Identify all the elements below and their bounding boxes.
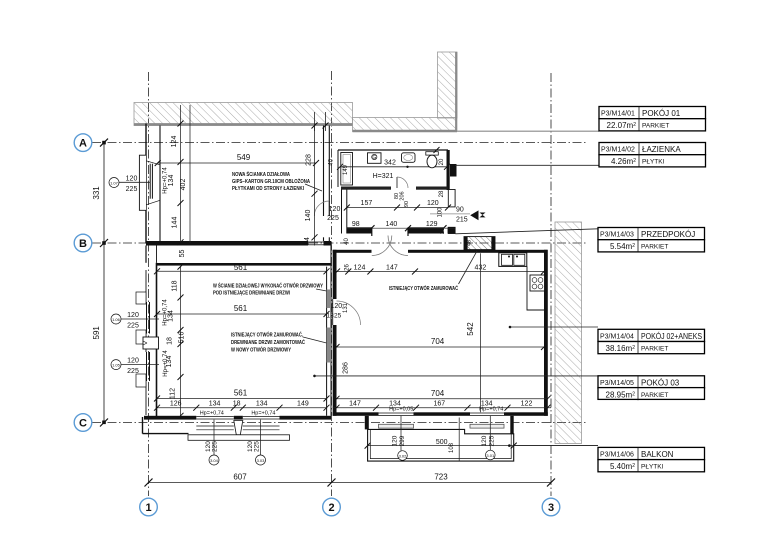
- note istniejacy otwor zamurowac (room03): [231, 331, 327, 354]
- svg-text:331: 331: [92, 186, 101, 200]
- leader to table 03: [455, 229, 598, 234]
- hallway bottom wall: [347, 227, 455, 233]
- balcony02 slab: [365, 416, 514, 461]
- svg-text:225: 225: [327, 215, 339, 222]
- svg-text:120: 120: [127, 358, 139, 365]
- label 1.06 120/225: [111, 312, 159, 330]
- svg-text:P3/M14/05: P3/M14/05: [600, 380, 634, 387]
- svg-text:2: 2: [328, 502, 334, 514]
- grid axis C horizontal dash-dot: [92, 422, 586, 424]
- svg-text:149: 149: [343, 164, 349, 175]
- svg-text:561: 561: [234, 389, 248, 398]
- svg-text:342: 342: [384, 160, 396, 167]
- svg-text:206: 206: [400, 191, 406, 200]
- svg-text:ISTNIEJĄCY OTWÓR ZAMUROWAĆ,: ISTNIEJĄCY OTWÓR ZAMUROWAĆ,: [231, 331, 303, 339]
- hallway dims 98/140/129: [344, 190, 446, 245]
- svg-text:38.16m2: 38.16m2: [606, 344, 636, 353]
- dim 55 between rooms: [179, 250, 186, 258]
- bathroom-hall partition wall (dark): [341, 187, 448, 190]
- grid axis 1 vertical dash-dot: [148, 72, 150, 496]
- leader to table 02: [455, 164, 599, 166]
- svg-text:Hp=+0,74: Hp=+0,74: [200, 410, 224, 416]
- dims 561 x3 room03: [154, 263, 330, 401]
- hallway left wall: [342, 190, 347, 234]
- svg-text:40: 40: [344, 238, 350, 245]
- svg-text:120: 120: [427, 200, 439, 207]
- svg-text:BALKON: BALKON: [641, 450, 674, 459]
- svg-text:561: 561: [234, 263, 248, 272]
- door 90/215 black leaf: [430, 207, 486, 224]
- svg-text:Hp=+0,74: Hp=+0,74: [163, 299, 169, 326]
- room03 left wall: [136, 263, 159, 420]
- svg-text:144: 144: [172, 217, 179, 229]
- hallway right wall with door opening: [448, 190, 455, 234]
- svg-text:124: 124: [171, 136, 178, 148]
- table P3/M14/04 POKOJ 02+ANEKS: [598, 329, 705, 353]
- leader to table 04: [509, 326, 598, 329]
- svg-text:704: 704: [431, 389, 445, 398]
- svg-text:3.03: 3.03: [257, 458, 266, 463]
- svg-text:B: B: [79, 238, 87, 250]
- svg-text:215: 215: [456, 217, 468, 224]
- svg-text:Hp=+0,74: Hp=+0,74: [479, 407, 503, 413]
- svg-text:C: C: [79, 418, 87, 430]
- balcony03 labels 120/225 + bubbles 3.04 3.03: [205, 420, 266, 465]
- svg-text:120: 120: [126, 175, 138, 182]
- room02 top wall: [333, 250, 548, 253]
- existing wall hatched band top (over room 01): [134, 103, 353, 126]
- bathroom tall cabinet: [341, 153, 353, 186]
- svg-text:299: 299: [399, 435, 406, 446]
- svg-text:140: 140: [386, 221, 398, 228]
- svg-text:98: 98: [352, 221, 360, 228]
- svg-text:PARKIET: PARKIET: [641, 345, 668, 352]
- svg-text:90: 90: [456, 207, 464, 214]
- svg-text:149: 149: [297, 401, 309, 408]
- existing wall hatched block top tall: [438, 52, 458, 131]
- dim 342 bathroom: [337, 160, 450, 170]
- svg-text:120: 120: [127, 312, 139, 319]
- window room03 left lower (1.05): [147, 352, 150, 381]
- bottom overall dimension line 607/723: [145, 473, 556, 487]
- svg-text:48: 48: [467, 240, 473, 246]
- svg-text:286: 286: [343, 362, 350, 374]
- svg-text:26: 26: [344, 264, 350, 271]
- svg-text:225: 225: [127, 368, 139, 375]
- svg-text:120: 120: [329, 206, 341, 213]
- svg-text:591: 591: [92, 326, 101, 340]
- svg-text:112: 112: [170, 388, 177, 399]
- svg-text:PŁYTKAMI OD STRONY ŁAZIENKI: PŁYTKAMI OD STRONY ŁAZIENKI: [232, 186, 304, 192]
- svg-text:3: 3: [548, 502, 554, 514]
- svg-text:1.06: 1.06: [112, 317, 121, 322]
- svg-text:5.54m2: 5.54m2: [610, 242, 635, 251]
- window room03 left upper (1.06): [147, 302, 150, 334]
- svg-text:157: 157: [361, 200, 373, 207]
- note w scianie dzialowej: [213, 282, 327, 297]
- svg-text:607: 607: [233, 473, 247, 482]
- room02 left wall: [333, 250, 337, 416]
- svg-text:561: 561: [234, 304, 248, 313]
- svg-text:120: 120: [331, 303, 343, 310]
- svg-text:P3/M14/06: P3/M14/06: [600, 451, 634, 458]
- existing wall hatched strip right side: [555, 222, 582, 444]
- svg-text:DREWNIANE DRZWI ZAMONTOWAĆ: DREWNIANE DRZWI ZAMONTOWAĆ: [231, 338, 305, 346]
- svg-text:Hp=+0,74: Hp=+0,74: [163, 350, 169, 377]
- bathroom walls: [338, 150, 450, 190]
- wall jog bottom-left corner: [143, 417, 189, 434]
- svg-text:134: 134: [168, 310, 175, 322]
- svg-text:225: 225: [253, 441, 260, 452]
- dim chain room03 left 118/134/18/134/112/516: [163, 264, 186, 419]
- svg-text:18: 18: [233, 401, 241, 408]
- table P3/M14/01 POKOJ 01: [599, 107, 706, 131]
- svg-text:W ŚCIANIE DZIAŁOWEJ WYKONAĆ OT: W ŚCIANIE DZIAŁOWEJ WYKONAĆ OTWÓR DRZWIO…: [213, 282, 323, 290]
- left overall dimension line 331/591: [92, 139, 108, 427]
- svg-text:H=321: H=321: [373, 173, 394, 180]
- grid axis 3 vertical dash-dot: [550, 73, 552, 496]
- bathroom sink: [402, 153, 416, 163]
- svg-text:118: 118: [172, 280, 179, 291]
- svg-text:228: 228: [306, 154, 313, 166]
- svg-text:40: 40: [329, 158, 335, 165]
- dim 286 on room02 left wall: [343, 362, 350, 374]
- svg-text:P3/M14/01: P3/M14/01: [601, 111, 635, 118]
- kitchen sink unit: [499, 253, 527, 267]
- table P3/M14/06 BALKON: [598, 447, 705, 471]
- svg-text:PARKIET: PARKIET: [641, 392, 668, 399]
- double door hallway to room02: [372, 227, 408, 255]
- svg-text:131: 131: [343, 302, 349, 313]
- svg-text:G: G: [372, 155, 376, 161]
- hallway dims 157/120: [344, 200, 451, 211]
- dim chain room02 top 26/124/147/432: [334, 264, 547, 275]
- room03 bottom wall with windows: [144, 416, 331, 420]
- svg-text:POD ISTNIEJĄCE DREWNIANE DRZWI: POD ISTNIEJĄCE DREWNIANE DRZWI: [213, 291, 290, 297]
- svg-text:402: 402: [180, 179, 187, 191]
- room03 right wall with door openings: [327, 246, 331, 416]
- room02 right wall: [544, 250, 548, 416]
- partition wall room01 right (new): [324, 126, 330, 242]
- window sills room02 bottom: [379, 424, 505, 428]
- svg-text:GIPS–KARTON GR.10CM OBLOŻONA: GIPS–KARTON GR.10CM OBLOŻONA: [232, 178, 310, 185]
- svg-text:POKÓJ 01: POKÓJ 01: [642, 109, 681, 118]
- svg-text:147: 147: [349, 401, 361, 408]
- svg-text:P3/M14/02: P3/M14/02: [601, 147, 635, 154]
- svg-text:225: 225: [127, 323, 139, 330]
- leader to table 05: [313, 375, 598, 378]
- toilet: [426, 152, 445, 168]
- svg-text:723: 723: [434, 473, 448, 482]
- svg-text:28: 28: [439, 190, 445, 197]
- leader to table 06: [514, 445, 598, 447]
- dim 704 bottom room02: [334, 389, 551, 402]
- chimney block right of bathroom: [450, 164, 457, 177]
- svg-text:542: 542: [466, 322, 475, 336]
- svg-text:PARKIET: PARKIET: [642, 123, 669, 130]
- svg-text:Hp=+0,74: Hp=+0,74: [251, 410, 275, 416]
- svg-text:34: 34: [304, 237, 311, 245]
- svg-text:129: 129: [426, 221, 438, 228]
- svg-text:225: 225: [211, 441, 218, 452]
- grid bubble B: [74, 234, 92, 252]
- svg-text:PŁYTKI: PŁYTKI: [642, 159, 665, 166]
- dim chain room01 left 124/134/144/402: [163, 105, 191, 245]
- dim chain room03 bottom 126/134/18/134/149: [154, 401, 330, 417]
- svg-text:3.04: 3.04: [210, 458, 219, 463]
- svg-text:225: 225: [126, 186, 138, 193]
- svg-text:PARKIET: PARKIET: [641, 244, 668, 251]
- svg-text:22.07m2: 22.07m2: [607, 121, 637, 130]
- svg-text:POKÓJ 03: POKÓJ 03: [641, 378, 680, 387]
- svg-text:18: 18: [167, 337, 174, 345]
- room03 top wall: [157, 263, 332, 266]
- svg-text:120: 120: [481, 435, 488, 446]
- svg-text:ŁAZIENKA: ŁAZIENKA: [642, 145, 681, 154]
- washing machine G: [368, 153, 382, 164]
- svg-text:147: 147: [386, 264, 398, 271]
- svg-text:134: 134: [209, 401, 221, 408]
- balcony03 window sills: [188, 421, 290, 441]
- svg-text:120: 120: [392, 435, 399, 446]
- svg-text:3.01: 3.01: [486, 453, 495, 458]
- grid bubble C: [74, 414, 92, 432]
- svg-text:28.95m2: 28.95m2: [606, 390, 636, 399]
- svg-text:Hp=+0,74: Hp=+0,74: [163, 167, 169, 194]
- svg-text:20: 20: [439, 158, 445, 165]
- grid bubble 2: [323, 498, 341, 516]
- dim chain room02 bottom 147/134/167/134/122: [333, 401, 551, 413]
- svg-text:225: 225: [489, 435, 496, 446]
- svg-text:PŁYTKI: PŁYTKI: [641, 463, 664, 470]
- existing wall hatched band top (over bathroom): [353, 118, 458, 132]
- svg-text:25: 25: [334, 313, 342, 320]
- svg-text:167: 167: [433, 401, 445, 408]
- table P3/M14/05 POKOJ 03: [598, 376, 705, 400]
- svg-text:ISTNIEJĄCY OTWÓR ZAMUROWAĆ: ISTNIEJĄCY OTWÓR ZAMUROWAĆ: [389, 284, 458, 292]
- svg-text:1: 1: [145, 502, 151, 514]
- svg-text:1.07: 1.07: [110, 181, 119, 186]
- svg-text:108: 108: [449, 442, 455, 453]
- label 1.05 120/225: [111, 358, 159, 376]
- wall stub left between room01 and room03: [146, 246, 157, 263]
- svg-text:A: A: [79, 138, 87, 150]
- leader to table 01: [457, 130, 599, 132]
- svg-text:1.05: 1.05: [112, 363, 121, 368]
- svg-text:Hp=+0,05: Hp=+0,05: [389, 407, 413, 413]
- svg-text:5.40m2: 5.40m2: [610, 462, 635, 471]
- note nowa scianka dzialowa: [232, 171, 322, 192]
- svg-text:55: 55: [179, 250, 186, 258]
- svg-text:134: 134: [256, 401, 268, 408]
- dim 40 left of bathroom: [329, 158, 335, 165]
- svg-text:549: 549: [237, 153, 251, 162]
- grid axis B horizontal dash-dot: [92, 242, 586, 244]
- grid bubble A: [74, 134, 92, 152]
- svg-text:POKÓJ 02+ANEKS: POKÓJ 02+ANEKS: [641, 332, 702, 341]
- room02 bottom wall with windows: [333, 412, 548, 416]
- grid bubble 1: [140, 498, 158, 516]
- wall room01 left outer: [139, 124, 160, 244]
- svg-text:W NOWY OTWÓR DRZWIOWY: W NOWY OTWÓR DRZWIOWY: [231, 346, 291, 354]
- bathroom door swing 80/206: [394, 177, 408, 201]
- svg-text:4.26m2: 4.26m2: [611, 157, 636, 166]
- note istniejacy otwor zamurowac (room02): [389, 251, 477, 292]
- bricked opening infill (48): [464, 237, 495, 250]
- dim 549 room01: [155, 153, 319, 166]
- dim line 98/140/129 on hallway bottom wall: [347, 225, 455, 231]
- dim 542 vertical room02: [466, 253, 481, 412]
- dim 704 mid room02: [334, 337, 548, 350]
- door room01 (120/225) swing: [314, 201, 340, 222]
- svg-text:90: 90: [404, 201, 410, 207]
- svg-text:122: 122: [521, 401, 533, 408]
- svg-text:704: 704: [431, 337, 445, 346]
- dim chain room01 right 228/140/34: [304, 112, 329, 246]
- svg-text:P3/M14/03: P3/M14/03: [600, 232, 634, 239]
- svg-text:P3/M14/04: P3/M14/04: [600, 333, 634, 340]
- window room01 left (120/225): [146, 161, 160, 205]
- svg-text:134: 134: [168, 175, 175, 187]
- svg-text:516: 516: [179, 332, 186, 344]
- table P3/M14/03 PRZEDPOKOJ: [598, 228, 705, 252]
- svg-text:100: 100: [438, 207, 444, 218]
- svg-text:NOWA ŚCIANKA DZIAŁOWA: NOWA ŚCIANKA DZIAŁOWA: [232, 171, 290, 178]
- grid bubble 3: [542, 498, 560, 516]
- svg-text:124: 124: [354, 264, 366, 271]
- table P3/M14/02 LAZIENKA: [599, 143, 706, 167]
- svg-text:126: 126: [170, 401, 182, 408]
- kitchen counter + hob: [527, 267, 545, 311]
- grid axis 2 vertical dash-dot: [331, 71, 333, 496]
- svg-text:3.02: 3.02: [399, 454, 408, 459]
- wall room01 bottom: [146, 241, 331, 246]
- balcony02 labels: [365, 416, 598, 461]
- window label 1.07 120/225: [109, 175, 151, 193]
- grid axis A horizontal dash-dot: [92, 142, 588, 144]
- door swing room03 to room02: [327, 299, 361, 325]
- text H=321: [373, 147, 440, 180]
- svg-text:140: 140: [305, 210, 312, 222]
- svg-text:500: 500: [436, 439, 448, 446]
- svg-text:PRZEDPOKÓJ: PRZEDPOKÓJ: [641, 230, 695, 239]
